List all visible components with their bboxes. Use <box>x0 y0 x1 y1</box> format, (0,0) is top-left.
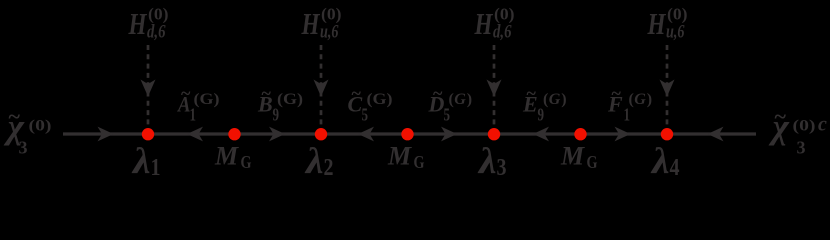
svg-text:~: ~ <box>612 83 622 103</box>
svg-text:G: G <box>549 91 561 108</box>
svg-text:u,6: u,6 <box>320 22 339 43</box>
svg-text:G: G <box>454 91 466 108</box>
svg-text:d,6: d,6 <box>493 22 512 43</box>
arrow left on segment lambda3-MG <box>533 127 549 142</box>
label lambda1 below vertex <box>131 141 161 182</box>
svg-text:): ) <box>561 91 566 108</box>
svg-text:(: ( <box>543 91 548 108</box>
label lambda2 below vertex <box>304 141 334 182</box>
svg-text:λ: λ <box>477 141 497 182</box>
arrow right on segment MG-lambda2 <box>269 127 285 142</box>
svg-text:): ) <box>467 91 472 108</box>
svg-text:G: G <box>634 91 646 108</box>
svg-text:H: H <box>128 6 147 41</box>
svg-text:~: ~ <box>527 83 537 103</box>
arrow right on segment chi3-lambda1 <box>98 127 114 142</box>
label coefficient A1^(G) tilde <box>176 83 219 125</box>
svg-text:~: ~ <box>352 83 362 103</box>
vertex MG insertion 2 (red dot) <box>401 128 413 140</box>
arrow left on segment lambda2-MG <box>358 127 374 142</box>
svg-text:(: ( <box>629 91 634 108</box>
vertex lambda2 (red dot) <box>315 128 327 140</box>
svg-text:H: H <box>474 6 493 41</box>
wire: dashed Higgs line at lambda4 <box>666 45 669 128</box>
label coefficient B9^(G) tilde <box>257 83 303 125</box>
label chi3^(0) external left <box>3 104 52 158</box>
svg-text:d,6: d,6 <box>147 22 166 43</box>
svg-text:): ) <box>647 91 652 108</box>
svg-text:~: ~ <box>262 83 272 103</box>
label coefficient E9^(G) tilde with italic G <box>522 83 567 125</box>
label lambda4 below vertex <box>650 141 680 182</box>
svg-text:(G): (G) <box>277 91 303 108</box>
svg-text:M: M <box>387 142 412 171</box>
wire: horizontal fermion propagator line <box>63 132 756 135</box>
svg-text:G: G <box>241 152 252 172</box>
label lambda3 below vertex <box>477 141 507 182</box>
svg-text:(0): (0) <box>667 5 688 24</box>
arrow left on segment lambda1-MG <box>187 127 203 142</box>
label H_u6^(0) above lambda4 <box>647 5 688 43</box>
wire: dashed Higgs line at lambda2 <box>320 45 323 128</box>
vertex MG insertion 3 (red dot) <box>574 128 586 140</box>
vertex MG insertion 1 (red dot) <box>228 128 240 140</box>
label coefficient D5^(G) tilde with italic G <box>428 83 473 125</box>
svg-text:(0): (0) <box>29 118 52 135</box>
vertex lambda4 (red dot) <box>661 128 673 140</box>
arrow down on Higgs line 1 <box>141 80 156 97</box>
svg-text:~: ~ <box>433 83 443 103</box>
svg-text:G: G <box>587 152 598 172</box>
svg-text:λ: λ <box>650 141 670 182</box>
wire: dashed Higgs line at lambda1 <box>147 45 150 128</box>
svg-text:(G): (G) <box>367 91 393 108</box>
svg-text:λ: λ <box>304 141 324 182</box>
svg-text:3: 3 <box>497 154 507 181</box>
svg-text:3: 3 <box>797 138 806 158</box>
arrow down on Higgs line 3 <box>487 80 502 97</box>
label MG below insertion 1 <box>214 142 252 173</box>
arrow down on Higgs line 2 <box>314 80 329 97</box>
arrow down on Higgs line 4 <box>660 80 675 97</box>
svg-text:u,6: u,6 <box>666 22 685 43</box>
svg-text:~: ~ <box>775 104 787 129</box>
svg-text:~: ~ <box>181 83 191 103</box>
svg-text:M: M <box>560 142 585 171</box>
svg-text:4: 4 <box>670 154 680 181</box>
svg-text:M: M <box>214 142 239 171</box>
label MG below insertion 3 <box>560 142 598 173</box>
svg-text:λ: λ <box>131 141 151 182</box>
label H_d6^(0) above lambda1 <box>128 5 169 43</box>
svg-text:(G): (G) <box>194 91 220 108</box>
label chi3^(0)c external right <box>768 104 827 158</box>
svg-text:(0): (0) <box>321 5 342 24</box>
svg-text:(: ( <box>449 91 454 108</box>
svg-text:(0): (0) <box>148 5 169 24</box>
svg-text:H: H <box>647 6 666 41</box>
arrow left on segment lambda4-chi3c <box>708 127 724 142</box>
svg-text:(0): (0) <box>793 118 816 135</box>
arrow right on segment MG-lambda4 <box>615 127 631 142</box>
label MG below insertion 2 <box>387 142 425 173</box>
svg-text:G: G <box>414 152 425 172</box>
arrow right on segment MG-lambda3 <box>441 127 457 142</box>
wire: dashed Higgs line at lambda3 <box>493 45 496 128</box>
vertex lambda1 (red dot) <box>142 128 154 140</box>
svg-text:2: 2 <box>324 154 334 181</box>
vertex lambda3 (red dot) <box>488 128 500 140</box>
label H_d6^(0) above lambda3 <box>474 5 515 43</box>
svg-text:3: 3 <box>19 138 28 158</box>
svg-text:~: ~ <box>9 104 21 129</box>
label coefficient C5^(G) tilde <box>348 83 393 125</box>
label H_u6^(0) above lambda2 <box>301 5 342 43</box>
svg-text:c: c <box>818 114 827 136</box>
svg-text:1: 1 <box>151 154 161 181</box>
svg-text:H: H <box>301 6 320 41</box>
label coefficient F1^(G) tilde with italic G <box>607 83 652 125</box>
svg-text:(0): (0) <box>494 5 515 24</box>
